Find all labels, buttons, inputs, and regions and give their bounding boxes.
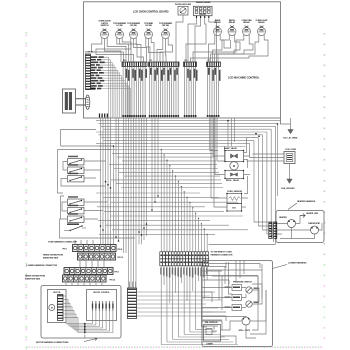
thermostat TH1 (308, 222, 321, 234)
P1 pin label 9 (90, 77, 102, 79)
wire (202, 312, 246, 330)
pin number label (126, 69, 128, 78)
wire (104, 57, 109, 118)
LCD machine control board U1 (84, 2, 281, 118)
heater harness box (276, 211, 324, 243)
motor control pins (92, 301, 114, 311)
label wires shown from insertion side 2 (25, 275, 45, 280)
pin number label (132, 69, 134, 78)
door switch S3 (68, 173, 85, 182)
wire (146, 39, 150, 63)
connector J4 row 1 (64, 268, 113, 275)
wire (142, 67, 144, 119)
switch S7 (64, 223, 86, 231)
svg-text:PIN 1: PIN 1 (115, 271, 119, 273)
wire (105, 62, 112, 118)
wire (99, 76, 121, 118)
wire (244, 138, 259, 153)
wire (219, 262, 232, 310)
svg-text:RELAY: RELAY (229, 21, 236, 24)
page border dotted left (26, 32, 28, 350)
wire (157, 39, 163, 63)
wire (107, 39, 126, 63)
wire (213, 116, 250, 156)
pin number label (219, 70, 221, 81)
wire (162, 67, 164, 119)
motor M1 (49, 305, 55, 311)
svg-text:LCD MACHINE CONTROL: LCD MACHINE CONTROL (228, 76, 260, 80)
pin number label (128, 70, 129, 81)
wire (96, 39, 134, 63)
P1 pin label 4 (90, 64, 100, 66)
wire (204, 261, 260, 283)
wire (92, 39, 124, 63)
connector P14 (128, 288, 137, 319)
svg-text:OVEN_SENSOR: OVEN_SENSOR (227, 191, 243, 193)
wire (127, 67, 129, 119)
motor connector strip (58, 295, 64, 321)
wire (129, 67, 131, 119)
connector pins heater (269, 222, 277, 239)
wire (144, 67, 146, 119)
wire (155, 67, 157, 119)
ground CHA_GROUND (281, 164, 295, 191)
P1 pin label 11 (90, 83, 101, 85)
wire (136, 39, 141, 63)
junction dots motor bundle (84, 323, 86, 334)
door switch S5 (68, 205, 85, 214)
wire (202, 284, 262, 302)
wire (134, 39, 147, 62)
door switch S1 (68, 156, 85, 165)
connector P4 (122, 59, 147, 66)
LP conversion kit box (63, 89, 76, 113)
wire (213, 67, 215, 116)
wire (277, 228, 315, 239)
wire (188, 67, 190, 119)
wire (122, 67, 124, 119)
connector P6 (184, 60, 197, 66)
svg-text:SPA_MODULE: SPA_MODULE (205, 321, 219, 324)
junction dots on board edge (122, 115, 220, 117)
svg-text:SPILL_PROF: SPILL_PROF (239, 330, 251, 332)
svg-text:INSERTION SIDE: INSERTION SIDE (25, 278, 41, 280)
connector CON_CONN (284, 149, 296, 163)
svg-text:HEATER_GRD: HEATER_GRD (306, 212, 319, 215)
wire (124, 67, 126, 119)
door switch S6 (68, 213, 85, 222)
wire maze verticals (101, 118, 281, 288)
wire (61, 145, 114, 147)
wire (210, 116, 218, 175)
wire (62, 202, 68, 211)
wire (202, 316, 226, 326)
motor harness outer box (41, 286, 121, 339)
wire (58, 150, 112, 194)
relay K10 (256, 20, 269, 36)
motor control box (87, 290, 117, 321)
wire (195, 18, 201, 62)
pin number label (150, 68, 152, 75)
svg-text:PIN 15: PIN 15 (118, 257, 123, 259)
P1 pin label 8 (90, 75, 99, 77)
wire (66, 283, 102, 286)
wire (191, 36, 269, 63)
relay K5 (159, 23, 172, 39)
pressure switch PS1 (225, 282, 260, 311)
wire (221, 290, 267, 344)
svg-text:RELAY: RELAY (243, 21, 250, 24)
svg-text:PIN 1: PIN 1 (63, 248, 67, 250)
svg-text:HARNESS CONNECTOR: HARNESS CONNECTOR (211, 253, 233, 256)
small hatch connector inline (100, 114, 108, 118)
wire (207, 67, 209, 116)
pin number label (154, 70, 156, 81)
wire (220, 36, 230, 49)
wire (215, 36, 241, 63)
wire (160, 67, 162, 119)
wire (225, 262, 227, 268)
wire (101, 83, 127, 118)
wire (250, 264, 266, 334)
broil valve V2 (224, 170, 244, 182)
svg-text:DOOR LATCH SW: DOOR LATCH SW (175, 3, 191, 6)
wire (84, 202, 108, 219)
label MOTOR HARNESS CONNECTIONS (36, 338, 97, 344)
svg-text:INSERTION SIDE: INSERTION SIDE (43, 258, 59, 260)
wire (131, 67, 133, 119)
connector J4 row 2 (63, 275, 107, 282)
label LOWER HARNESS (273, 262, 308, 269)
door switch S4 (68, 196, 85, 205)
svg-text:MOTOR: MOTOR (53, 292, 61, 294)
wire (151, 67, 153, 119)
wire (102, 78, 123, 118)
wire (101, 89, 130, 118)
svg-text:LOWER: LOWER (206, 343, 213, 345)
wire maze horizontals (96, 121, 281, 235)
wire (211, 67, 213, 116)
wires below connector (161, 266, 238, 345)
wire (171, 67, 173, 119)
wire (130, 282, 136, 289)
wire (190, 67, 192, 119)
pin number label (194, 69, 196, 78)
wire (218, 67, 220, 116)
connector wire-to-oven (160, 252, 209, 266)
wire (184, 67, 186, 119)
wire (149, 39, 164, 62)
wire (149, 67, 151, 119)
door latch relay K6 (175, 3, 191, 15)
svg-text:TLR_LID_GRND: TLR_LID_GRND (283, 138, 298, 140)
svg-text:SWITCH: SWITCH (101, 25, 109, 27)
relay K7 (214, 19, 222, 36)
svg-text:PIN 8: PIN 8 (118, 249, 122, 251)
wire (211, 116, 248, 207)
pin number label (176, 68, 178, 75)
svg-text:WIRES SHOWN FROM: WIRES SHOWN FROM (43, 255, 63, 257)
wire (165, 39, 168, 62)
motor box (48, 290, 67, 323)
svg-text:LR SW: LR SW (145, 25, 151, 27)
svg-text:M: M (51, 308, 53, 310)
pin number label (215, 68, 217, 75)
pin number label (146, 69, 148, 78)
spark module A2 (204, 321, 221, 345)
wire (75, 240, 93, 245)
pin labels below connector (160, 268, 207, 278)
relay K3 (127, 23, 140, 39)
connector J2 oval (85, 95, 89, 109)
wire (173, 67, 175, 119)
svg-text:BAKE_VALVE: BAKE_VALVE (224, 147, 238, 150)
wire (281, 118, 291, 124)
svg-text:RELAY: RELAY (258, 21, 265, 24)
wire (215, 174, 250, 176)
P1 bottom tick (91, 88, 96, 90)
wire (209, 18, 217, 62)
svg-text:M: M (233, 165, 235, 168)
connector P1 (85, 52, 94, 90)
P1 pin label 12 (90, 85, 103, 87)
pin number label (208, 68, 210, 75)
pin number label (139, 69, 141, 78)
wire (176, 15, 183, 62)
wire (133, 67, 135, 119)
svg-text:RF SW: RF SW (130, 25, 136, 27)
svg-text:WIRES SHOWN FROM: WIRES SHOWN FROM (25, 275, 45, 277)
svg-text:HEATER HARNESS: HEATER HARNESS (297, 200, 316, 203)
wire (254, 222, 274, 242)
wire (211, 36, 254, 63)
wire (61, 179, 105, 187)
relay K2 (113, 23, 126, 39)
wire (140, 67, 142, 119)
svg-text:LOWER HARNESS: LOWER HARNESS (288, 262, 307, 265)
pin number label (212, 70, 214, 81)
wire (192, 67, 194, 119)
wire (60, 219, 136, 238)
pin number label (174, 70, 176, 81)
P1 pin label 1 (90, 56, 104, 58)
wire (186, 18, 206, 62)
svg-text:OVEN HARNESS CONNECTOR: OVEN HARNESS CONNECTOR (48, 241, 77, 244)
wire (209, 36, 215, 63)
svg-text:LF SW: LF SW (116, 25, 122, 27)
wire (137, 292, 226, 316)
page border dotted bottom (26, 346, 322, 348)
wire (105, 39, 122, 62)
P1 pin label 2 (90, 59, 101, 61)
svg-text:LCD OVEN CONTROL BOARD: LCD OVEN CONTROL BOARD (133, 10, 169, 14)
svg-text:TRANSFORMER: TRANSFORMER (196, 1, 211, 4)
wire (177, 67, 179, 119)
svg-text:MOTOR HARNESS CONNECTIONS: MOTOR HARNESS CONNECTIONS (36, 341, 69, 344)
svg-text:MOTOR_CONTROL: MOTOR_CONTROL (93, 292, 110, 294)
svg-text:BROIL_VALVE: BROIL_VALVE (226, 179, 240, 182)
svg-text:LOWER HARNESS CONNECTOR: LOWER HARNESS CONNECTOR (27, 264, 58, 267)
connector P7 (207, 60, 221, 66)
heater ground arrow (300, 212, 319, 217)
junction dots in maze (100, 120, 279, 242)
wire (61, 130, 97, 147)
spark igniter E1 (239, 317, 251, 332)
wire (186, 67, 188, 119)
wire bundle to oven harness connector (161, 149, 208, 252)
door switch S2 (68, 164, 85, 173)
pin number label (161, 70, 163, 81)
wire (103, 68, 116, 118)
wire (101, 60, 110, 118)
relay K8 (228, 20, 236, 36)
heater element HTR1 (279, 216, 296, 228)
pin number label (135, 70, 137, 81)
wire (117, 39, 129, 63)
pin number label (189, 70, 191, 81)
svg-text:CONN P1: CONN P1 (85, 52, 94, 54)
wire (160, 39, 173, 63)
wire (209, 67, 211, 116)
connector J3 row 1 (73, 245, 117, 252)
wire (100, 65, 114, 118)
svg-text:TO THE WIRE TO OVEN: TO THE WIRE TO OVEN (211, 251, 233, 253)
convection motor M2 (230, 162, 238, 170)
pin number label (170, 68, 172, 75)
wire (135, 67, 137, 119)
wire (195, 67, 197, 119)
wire (202, 288, 246, 308)
wire (138, 67, 140, 119)
wire (104, 73, 120, 118)
wire (61, 196, 65, 219)
P1 pin label 13 (90, 88, 101, 90)
wire (157, 67, 159, 119)
P1 pin label 6 (90, 69, 101, 71)
connector J3 row 2 (78, 253, 116, 260)
pin number label (157, 68, 159, 75)
wire (209, 243, 276, 245)
wire (120, 39, 144, 62)
wire (153, 67, 155, 119)
pin number label (196, 70, 198, 81)
svg-text:THERMOSTAT: THERMOSTAT (308, 222, 321, 225)
wire (101, 70, 118, 118)
wire (84, 161, 106, 178)
wire (151, 39, 154, 63)
wire (63, 162, 68, 171)
wire (213, 36, 230, 63)
ground TLR_LID_GRND (283, 118, 298, 140)
relay K9 (241, 19, 252, 36)
wire (202, 267, 258, 285)
pin number label (168, 70, 170, 81)
page border dotted right (324, 33, 326, 339)
bake valve V1 (224, 147, 244, 162)
svg-text:RR SW: RR SW (162, 25, 169, 27)
P1 pin label 3 (90, 62, 105, 64)
motor wires bundle (63, 296, 113, 333)
svg-text:HEATER: HEATER (279, 216, 287, 219)
P1 pin label 10 (90, 80, 104, 82)
wire (168, 67, 170, 119)
wire (215, 67, 217, 116)
wire (175, 67, 177, 119)
wire (193, 36, 244, 63)
svg-text:CHA_GROUND: CHA_GROUND (281, 187, 295, 190)
label HEATER HARNESS (288, 200, 316, 209)
wire (211, 116, 225, 198)
wire (164, 67, 166, 119)
wire (80, 260, 104, 268)
svg-text:RELAY: RELAY (214, 21, 221, 24)
wire (277, 216, 322, 231)
lower harness box (202, 261, 273, 347)
label wires shown from insertion side (43, 255, 63, 260)
transformer T1 (193, 1, 212, 18)
wire (188, 18, 197, 62)
wire (104, 81, 125, 118)
pin number label (141, 70, 143, 81)
wire (122, 39, 131, 63)
P1 pin label 7 (90, 72, 104, 74)
pin number label (163, 68, 165, 75)
wire (218, 36, 259, 63)
connector link (76, 99, 86, 105)
wire (103, 86, 129, 118)
P1 pin label 5 (90, 67, 103, 69)
oven sensor RT1 (226, 191, 242, 212)
label TO THE WIRE TO OVEN (211, 251, 233, 256)
wire (247, 154, 285, 161)
wire (244, 160, 248, 194)
relay K4 (144, 23, 153, 39)
pin number label (187, 69, 189, 78)
wire (166, 67, 168, 119)
svg-text:CON_CONN: CON_CONN (285, 149, 296, 151)
connector P5 (149, 60, 180, 66)
wire (206, 270, 262, 304)
relay K1 (99, 20, 112, 38)
wire (84, 335, 86, 339)
